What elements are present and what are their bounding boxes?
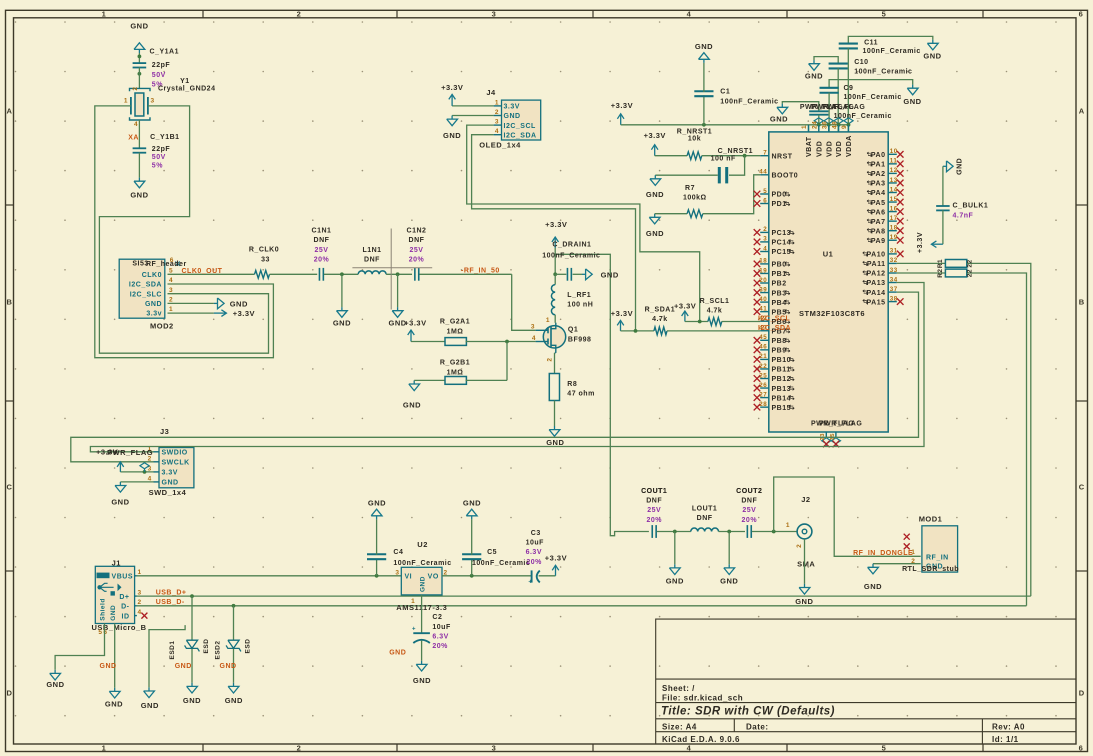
svg-text:100nF_Ceramic: 100nF_Ceramic [720, 99, 778, 106]
svg-text:J3: J3 [160, 427, 169, 436]
svg-text:D: D [1079, 689, 1085, 698]
svg-text:25V: 25V [315, 247, 329, 254]
svg-text:C9: C9 [844, 85, 854, 92]
svg-text:PD0: PD0 [772, 192, 787, 199]
svg-text:BOOT0: BOOT0 [772, 173, 799, 180]
svg-text:20%: 20% [742, 517, 758, 524]
svg-text:2: 2 [796, 544, 803, 548]
svg-text:R7: R7 [685, 185, 695, 192]
svg-text:GND: GND [770, 114, 788, 123]
svg-text:RTL_SDR_stub: RTL_SDR_stub [902, 566, 959, 573]
svg-text:3: 3 [495, 119, 499, 126]
svg-text:20%: 20% [314, 257, 330, 264]
svg-text:DNF: DNF [364, 257, 380, 264]
svg-text:B: B [1079, 298, 1085, 307]
svg-text:C_BULK1: C_BULK1 [953, 203, 989, 210]
svg-text:4: 4 [687, 10, 692, 19]
svg-text:I2C_SDA: I2C_SDA [504, 132, 537, 139]
svg-text:GND: GND [141, 701, 159, 710]
svg-text:5: 5 [98, 629, 102, 636]
svg-text:USB_D+: USB_D+ [156, 589, 187, 596]
svg-text:+3.3V: +3.3V [404, 319, 426, 328]
svg-text:GND: GND [333, 319, 351, 328]
svg-text:PA5: PA5 [871, 200, 886, 207]
svg-text:PC13: PC13 [772, 230, 792, 237]
svg-text:20%: 20% [432, 643, 448, 650]
svg-text:22pF: 22pF [152, 146, 171, 153]
svg-text:GND: GND [145, 301, 162, 308]
svg-text:7: 7 [763, 150, 767, 157]
svg-text:GND: GND [805, 71, 823, 80]
svg-text:D-: D- [121, 604, 130, 611]
svg-text:R_G2B1: R_G2B1 [440, 359, 470, 366]
svg-text:PA14: PA14 [867, 290, 886, 297]
svg-text:4: 4 [138, 609, 142, 616]
svg-text:1: 1 [102, 744, 107, 753]
svg-text:10uF: 10uF [526, 539, 545, 546]
svg-text:50V: 50V [152, 72, 166, 79]
svg-text:GND: GND [111, 497, 129, 506]
svg-text:SMA: SMA [797, 559, 815, 568]
svg-text:PB4: PB4 [772, 300, 787, 307]
svg-text:SWDIO: SWDIO [162, 450, 188, 457]
svg-text:PB1: PB1 [772, 271, 787, 278]
svg-text:VBUS: VBUS [112, 573, 133, 580]
svg-text:GND: GND [957, 158, 964, 175]
svg-text:DNF: DNF [646, 498, 662, 505]
svg-text:2: 2 [297, 744, 302, 753]
svg-text:VDD: VDD [816, 141, 823, 157]
svg-text:GND: GND [695, 42, 713, 51]
svg-text:J2: J2 [801, 495, 810, 504]
svg-text:J4: J4 [486, 88, 496, 97]
svg-text:GND: GND [403, 401, 421, 410]
svg-text:4: 4 [532, 335, 536, 342]
svg-text:25V: 25V [410, 247, 424, 254]
svg-text:100nF_Ceramic: 100nF_Ceramic [854, 68, 912, 75]
svg-text:5%: 5% [152, 163, 163, 170]
svg-text:C11: C11 [864, 40, 878, 47]
svg-text:4: 4 [687, 744, 692, 753]
svg-text:33: 33 [261, 257, 270, 264]
svg-text:36: 36 [821, 121, 828, 129]
svg-text:RF_header: RF_header [146, 261, 187, 268]
svg-text:Q1: Q1 [568, 327, 578, 334]
svg-text:100nF_Ceramic: 100nF_Ceramic [844, 94, 902, 101]
svg-text:ESD: ESD [245, 639, 252, 654]
svg-text:1: 1 [169, 306, 173, 313]
svg-text:PC15: PC15 [772, 249, 792, 256]
svg-text:C10: C10 [854, 59, 868, 66]
svg-text:100nF_Ceramic: 100nF_Ceramic [834, 113, 892, 120]
svg-text:BF998: BF998 [568, 336, 592, 343]
svg-text:Title: SDR with CW (Defaults): Title: SDR with CW (Defaults) [661, 706, 835, 718]
svg-text:PA10: PA10 [867, 252, 886, 259]
svg-text:100kΩ: 100kΩ [683, 194, 707, 201]
svg-text:ESD1: ESD1 [169, 641, 176, 660]
svg-text:GND: GND [720, 577, 738, 586]
svg-text:PA1: PA1 [871, 162, 886, 169]
svg-text:ID: ID [122, 613, 130, 620]
svg-text:R_CLK0: R_CLK0 [249, 247, 279, 254]
svg-text:D: D [7, 689, 13, 698]
svg-text:GND: GND [504, 113, 521, 120]
svg-text:PB0: PB0 [772, 262, 787, 269]
svg-text:3.3V: 3.3V [504, 104, 520, 111]
svg-text:+: + [528, 579, 532, 586]
svg-text:R_NRST1: R_NRST1 [677, 129, 712, 136]
svg-text:R2: R2 [937, 268, 944, 277]
svg-text:Y1: Y1 [180, 78, 190, 85]
svg-text:R8: R8 [567, 381, 577, 388]
svg-text:PB12: PB12 [772, 376, 792, 383]
svg-text:VDD: VDD [826, 141, 833, 157]
svg-text:GND: GND [666, 577, 684, 586]
svg-text:+3.3V: +3.3V [611, 101, 633, 110]
svg-text:L1N1: L1N1 [362, 247, 381, 254]
svg-text:10k: 10k [688, 136, 701, 143]
svg-text:PA15: PA15 [867, 299, 886, 306]
svg-text:GND: GND [864, 582, 882, 591]
svg-text:PB9: PB9 [772, 348, 787, 355]
svg-text:4: 4 [495, 128, 499, 135]
svg-text:I2C_SDA: I2C_SDA [129, 282, 162, 289]
svg-text:3: 3 [531, 324, 535, 331]
svg-text:PB3: PB3 [772, 290, 787, 297]
svg-text:PB15: PB15 [772, 405, 792, 412]
svg-text:+3.3V: +3.3V [545, 220, 567, 229]
svg-text:NRST: NRST [772, 153, 793, 160]
svg-text:GND: GND [646, 229, 664, 238]
svg-text:20%: 20% [526, 559, 542, 566]
svg-text:GND: GND [230, 299, 248, 308]
svg-text:DNF: DNF [409, 237, 425, 244]
svg-text:24: 24 [812, 121, 819, 129]
svg-text:C_Y1A1: C_Y1A1 [150, 49, 179, 56]
svg-text:9: 9 [841, 125, 848, 129]
svg-text:1: 1 [411, 598, 415, 605]
svg-text:1: 1 [124, 98, 128, 105]
svg-text:5: 5 [882, 10, 887, 19]
svg-text:PA9: PA9 [871, 238, 886, 245]
svg-text:48: 48 [831, 121, 838, 129]
svg-text:GND: GND [795, 597, 813, 606]
svg-text:+3.3V: +3.3V [644, 131, 666, 140]
svg-text:GND: GND [130, 22, 148, 31]
svg-text:1: 1 [801, 125, 808, 129]
svg-text:6: 6 [1079, 10, 1084, 19]
svg-text:PB10: PB10 [772, 357, 792, 364]
svg-text:37: 37 [890, 286, 898, 293]
svg-text:4.7nF: 4.7nF [953, 212, 974, 219]
svg-text:GND: GND [225, 696, 243, 705]
svg-text:DNF: DNF [741, 498, 757, 505]
svg-text:R_G2A1: R_G2A1 [440, 318, 470, 325]
svg-text:GND: GND [162, 480, 179, 487]
svg-text:J1: J1 [112, 559, 121, 568]
svg-text:MOD1: MOD1 [919, 515, 943, 524]
svg-text:I2C_SCL: I2C_SCL [504, 123, 537, 130]
svg-text:C5: C5 [487, 549, 497, 556]
svg-text:100 nF: 100 nF [711, 156, 736, 163]
svg-text:GND: GND [220, 663, 237, 670]
svg-text:3.3V: 3.3V [162, 470, 178, 477]
svg-text:3.3v: 3.3v [146, 311, 162, 318]
svg-text:File: sdr.kicad_sch: File: sdr.kicad_sch [662, 694, 743, 703]
svg-text:VI: VI [405, 573, 413, 580]
svg-text:+: + [412, 627, 416, 633]
svg-text:4: 4 [763, 245, 767, 252]
svg-text:GND: GND [368, 498, 386, 507]
svg-text:C1N1: C1N1 [312, 228, 332, 235]
svg-text:33: 33 [890, 267, 898, 274]
svg-text:GND: GND [110, 605, 117, 621]
svg-text:+3.3V: +3.3V [545, 553, 567, 562]
svg-text:ESD2: ESD2 [215, 641, 222, 660]
svg-text:VO: VO [428, 573, 439, 580]
svg-text:PB2: PB2 [772, 281, 787, 288]
svg-text:Size: A4: Size: A4 [662, 723, 697, 732]
svg-text:6.3V: 6.3V [526, 549, 542, 556]
svg-text:I2C_SLC: I2C_SLC [130, 291, 162, 298]
svg-text:VBAT: VBAT [806, 136, 813, 157]
svg-text:C1N2: C1N2 [407, 228, 427, 235]
svg-text:100nF_Ceramic: 100nF_Ceramic [863, 48, 921, 55]
svg-text:22: 22 [966, 259, 973, 267]
svg-text:4.7k: 4.7k [652, 316, 668, 323]
svg-text:GND: GND [646, 190, 664, 199]
svg-text:3: 3 [169, 287, 173, 294]
svg-text:5: 5 [763, 188, 767, 195]
svg-text:3: 3 [395, 569, 399, 576]
svg-text:3: 3 [763, 236, 767, 243]
svg-text:GND: GND [923, 52, 941, 61]
svg-text:100nF_Ceramic: 100nF_Ceramic [542, 252, 600, 259]
svg-text:GND: GND [183, 696, 201, 705]
svg-text:PA3: PA3 [871, 181, 886, 188]
svg-text:GND: GND [463, 498, 481, 507]
svg-text:+3.3V: +3.3V [233, 309, 255, 318]
svg-text:1: 1 [786, 522, 790, 529]
svg-text:100nF_Ceramic: 100nF_Ceramic [393, 560, 451, 567]
svg-text:RF_IN: RF_IN [926, 554, 949, 561]
svg-text:PA12: PA12 [867, 271, 886, 278]
svg-text:32: 32 [890, 257, 898, 264]
svg-text:PB11: PB11 [772, 367, 791, 374]
svg-text:C1: C1 [720, 88, 730, 95]
svg-text:XA: XA [128, 135, 139, 142]
svg-text:U2: U2 [417, 540, 428, 549]
svg-text:1: 1 [911, 549, 915, 556]
svg-text:Id: 1/1: Id: 1/1 [992, 735, 1019, 744]
svg-text:Crystal_GND24: Crystal_GND24 [158, 85, 215, 92]
svg-text:PA13: PA13 [867, 280, 886, 287]
svg-text:C_Y1B1: C_Y1B1 [150, 134, 179, 141]
svg-text:+3.3V: +3.3V [441, 83, 463, 92]
svg-text:PB8: PB8 [772, 338, 787, 345]
svg-text:34: 34 [890, 276, 898, 283]
svg-text:MOD2: MOD2 [150, 321, 174, 330]
svg-text:PA4: PA4 [871, 190, 886, 197]
svg-text:PA6: PA6 [871, 209, 886, 216]
svg-text:PB13: PB13 [772, 386, 792, 393]
svg-text:USB_D-: USB_D- [156, 599, 185, 606]
svg-text:+3.3V: +3.3V [611, 309, 633, 318]
svg-text:GND: GND [443, 131, 461, 140]
svg-text:10uF: 10uF [432, 624, 451, 631]
svg-text:GND: GND [903, 97, 921, 106]
svg-text:11: 11 [890, 158, 898, 165]
svg-text:COUT2: COUT2 [736, 488, 762, 495]
svg-text:PWR_FLAG: PWR_FLAG [822, 104, 865, 111]
svg-text:CLK0: CLK0 [142, 272, 162, 279]
svg-text:VDD: VDD [836, 141, 843, 157]
svg-text:D+: D+ [119, 594, 129, 601]
svg-text:100nF_Ceramic: 100nF_Ceramic [472, 560, 530, 567]
svg-text:6.3V: 6.3V [432, 633, 448, 640]
svg-text:OLED_1x4: OLED_1x4 [479, 140, 521, 149]
svg-text:I2C_SCL: I2C_SCL [758, 316, 791, 323]
svg-text:25V: 25V [647, 507, 661, 514]
svg-text:GND: GND [546, 438, 564, 447]
svg-text:SWCLK: SWCLK [162, 460, 190, 467]
svg-text:DNF: DNF [314, 237, 330, 244]
svg-text:1: 1 [102, 10, 107, 19]
svg-text:50V: 50V [152, 154, 166, 161]
svg-text:RF_IN_DONGLE: RF_IN_DONGLE [853, 550, 913, 557]
svg-text:PA7: PA7 [871, 219, 886, 226]
svg-text:VDDA: VDDA [846, 135, 853, 157]
svg-text:B: B [7, 298, 13, 307]
svg-text:+3.3V: +3.3V [674, 301, 696, 310]
svg-text:23: 23 [820, 433, 826, 441]
svg-text:Sheet: /: Sheet: / [662, 684, 695, 693]
svg-text:PD1: PD1 [772, 201, 787, 208]
svg-text:5: 5 [882, 744, 887, 753]
svg-text:6: 6 [1079, 744, 1084, 753]
svg-text:3: 3 [492, 744, 497, 753]
svg-text:Shield: Shield [100, 598, 107, 621]
svg-text:2: 2 [132, 87, 139, 91]
svg-text:25V: 25V [742, 507, 756, 514]
svg-text:-RF_IN_50: -RF_IN_50 [461, 267, 500, 274]
svg-text:C: C [7, 483, 13, 492]
svg-text:22: 22 [966, 269, 973, 277]
svg-text:C_DRAIN1: C_DRAIN1 [552, 241, 591, 248]
svg-text:5: 5 [169, 267, 173, 274]
svg-text:PA11: PA11 [867, 261, 886, 268]
svg-text:100 nH: 100 nH [567, 302, 593, 309]
svg-text:20%: 20% [646, 517, 662, 524]
svg-text:GND: GND [46, 680, 64, 689]
svg-text:PWR_FLAG: PWR_FLAG [819, 421, 862, 428]
svg-text:1: 1 [495, 99, 499, 106]
svg-text:STM32F103C8T6: STM32F103C8T6 [799, 309, 865, 318]
svg-text:DNF: DNF [697, 515, 713, 522]
svg-text:GND: GND [175, 663, 192, 670]
svg-text:ESD: ESD [203, 639, 210, 654]
svg-text:LOUT1: LOUT1 [692, 506, 717, 513]
svg-text:2: 2 [297, 10, 302, 19]
svg-text:A: A [7, 107, 13, 116]
svg-text:PA8: PA8 [871, 228, 886, 235]
svg-text:COUT1: COUT1 [641, 488, 667, 495]
svg-text:C4: C4 [393, 549, 403, 556]
svg-text:4: 4 [169, 277, 173, 284]
svg-text:PA0: PA0 [871, 152, 886, 159]
svg-text:C2: C2 [432, 614, 442, 621]
svg-text:1MΩ: 1MΩ [447, 369, 464, 376]
svg-text:35: 35 [830, 433, 836, 441]
svg-text:R_SDA1: R_SDA1 [645, 307, 676, 314]
svg-text:KiCad E.D.A. 9.0.6: KiCad E.D.A. 9.0.6 [662, 735, 740, 744]
svg-text:Rev: A0: Rev: A0 [992, 723, 1025, 732]
svg-text:2: 2 [495, 109, 499, 116]
svg-text:3: 3 [151, 98, 155, 105]
svg-text:PC14: PC14 [772, 240, 792, 247]
svg-text:22pF: 22pF [152, 62, 171, 69]
svg-text:PWR_FLAG: PWR_FLAG [107, 448, 153, 457]
svg-text:GND: GND [130, 190, 148, 199]
svg-text:GND: GND [100, 663, 117, 670]
svg-text:47 ohm: 47 ohm [567, 390, 595, 397]
svg-text:44: 44 [759, 169, 767, 176]
svg-text:1MΩ: 1MΩ [447, 328, 464, 335]
svg-text:CLK0_OUT: CLK0_OUT [182, 268, 223, 275]
svg-text:4: 4 [134, 121, 138, 128]
svg-text:6: 6 [763, 197, 767, 204]
svg-text:U1: U1 [823, 250, 834, 259]
svg-text:Date:: Date: [746, 723, 769, 732]
svg-text:3: 3 [492, 10, 497, 19]
svg-text:GND: GND [420, 576, 427, 592]
svg-text:20%: 20% [409, 257, 425, 264]
svg-text:2: 2 [547, 358, 554, 362]
svg-text:+3.3V: +3.3V [917, 232, 924, 253]
svg-text:2: 2 [169, 297, 173, 304]
svg-text:I2C_SDA: I2C_SDA [758, 325, 791, 332]
svg-text:C_NRST1: C_NRST1 [718, 148, 753, 155]
svg-text:C: C [1079, 483, 1085, 492]
svg-text:A: A [1079, 107, 1085, 116]
svg-text:PB14: PB14 [772, 395, 792, 402]
svg-text:PA2: PA2 [871, 171, 886, 178]
svg-text:GND: GND [601, 271, 619, 280]
svg-text:GND: GND [389, 650, 406, 657]
svg-text:4.7k: 4.7k [707, 308, 723, 315]
svg-text:C3: C3 [531, 530, 541, 537]
svg-text:GND: GND [413, 676, 431, 685]
svg-text:1: 1 [546, 317, 550, 324]
svg-text:R1: R1 [937, 259, 944, 268]
svg-text:L_RF1: L_RF1 [567, 292, 591, 299]
svg-text:R_SCL1: R_SCL1 [700, 298, 730, 305]
svg-text:SWD_1x4: SWD_1x4 [149, 488, 187, 497]
svg-text:GND: GND [105, 700, 123, 709]
svg-text:2: 2 [763, 226, 767, 233]
